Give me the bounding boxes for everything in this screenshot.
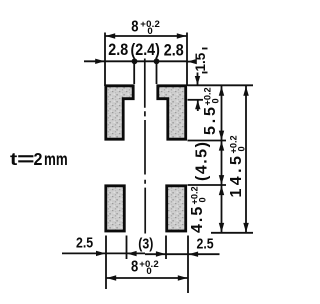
- dim 1.5 lower outside arrow: [197, 100, 199, 111]
- svg-text:0: 0: [146, 266, 151, 277]
- node dot right 2.8 boundary: [154, 58, 160, 64]
- svg-text:t: t: [10, 150, 18, 169]
- ext line pad-top right side: [188, 84, 254, 86]
- text (2.4): [131, 41, 160, 59]
- svg-text:(4.5): (4.5): [194, 141, 211, 181]
- extension from dot right down to pad: [156, 61, 158, 84]
- svg-text:0: 0: [237, 146, 247, 151]
- svg-text:5.5: 5.5: [202, 104, 219, 135]
- arrow at 126.5 pointing left ((3) inside): [127, 251, 137, 256]
- text (3): [138, 235, 153, 251]
- extension line right x=187: [186, 33, 188, 87]
- text 8 top: [131, 18, 138, 35]
- arrow down bottom (14.5): [243, 223, 249, 233]
- svg-text:0: 0: [211, 98, 221, 103]
- svg-text:(3): (3): [138, 235, 153, 251]
- tick below 1.5: [202, 72, 208, 74]
- svg-text:2.8: 2.8: [164, 42, 184, 60]
- pad top-left: [106, 86, 133, 139]
- svg-text:2.5: 2.5: [76, 234, 94, 250]
- svg-text:14.5: 14.5: [228, 153, 245, 198]
- text t=2mm: [10, 150, 18, 169]
- arrow down at 233 (4.5): [219, 223, 224, 233]
- arrow at 166 pointing right ((3) inside): [156, 251, 166, 256]
- svg-text:0: 0: [198, 197, 208, 202]
- svg-text:mm: mm: [44, 150, 68, 169]
- arrow left (8 top): [106, 33, 116, 38]
- arrow up at 140.5 ((4.5)): [219, 141, 224, 151]
- text 14.5 +0.2/0 rotated: [228, 135, 247, 197]
- dim line 5.5/(4.5)/4.5 vertical: [221, 86, 223, 233]
- svg-text:2: 2: [34, 149, 43, 169]
- text 2.8 right: [164, 42, 184, 60]
- svg-text:(2.4): (2.4): [131, 41, 160, 59]
- arrow at 106 pointing right (2.5 left outside): [96, 251, 106, 256]
- arrow right (8 top): [177, 33, 187, 38]
- text 4.5 +0.2/0 rotated: [189, 186, 208, 233]
- bottom ext line x=126.5: [126, 236, 128, 260]
- bottom ext line x=188: [187, 236, 189, 294]
- svg-text:4.5: 4.5: [189, 205, 206, 233]
- dim line 8 top: [105, 35, 187, 37]
- arrow up top (5.5): [219, 86, 224, 96]
- svg-text:1.5: 1.5: [193, 52, 208, 71]
- ext line bottom pads bottom: [211, 232, 253, 234]
- text (4.5) rotated: [194, 141, 211, 181]
- extension from dot left down to pad: [133, 61, 135, 84]
- centerline vertical: [144, 59, 146, 234]
- tick above 1.5: [202, 48, 208, 50]
- text 2.5 left: [76, 234, 94, 250]
- text 2.5 right: [197, 235, 215, 251]
- text 2.8 left: [108, 41, 128, 59]
- dim line 2.8/(2.4)/2.8: [84, 60, 187, 62]
- ext line ledge: [188, 99, 204, 101]
- arrow down at 185 ((4.5)): [219, 175, 224, 185]
- text 5.5 +0.2/0 rotated: [202, 87, 221, 135]
- text 1.5 rotated: [193, 52, 208, 71]
- pad bottom-right: [167, 186, 186, 231]
- arrow at 188 pointing left (2.5 right outside): [189, 252, 199, 257]
- svg-text:0: 0: [147, 26, 152, 37]
- pad bottom-left: [106, 186, 125, 231]
- arrow at x=105 pointing right (outside): [95, 59, 104, 64]
- bottom ext line x=106: [105, 236, 107, 290]
- ext line bottom-pad-top: [188, 184, 227, 186]
- arrow at x=187 pointing left (outside): [187, 59, 196, 64]
- ext line pad-bottom: [188, 140, 227, 142]
- svg-text:2.8: 2.8: [108, 41, 128, 59]
- arrow down at 140.5 (5.5): [219, 131, 224, 141]
- dim 1.5 upper outside arrow: [197, 73, 199, 86]
- extension line left x=105: [104, 33, 106, 87]
- arrow up at 185 (4.5): [219, 186, 224, 196]
- pad top-right: [158, 86, 186, 139]
- arrow left (8 bottom): [107, 275, 117, 280]
- svg-text:2.5: 2.5: [197, 235, 215, 251]
- dim line 8 bottom: [106, 277, 188, 279]
- text 8 bottom: [131, 258, 138, 275]
- dim line 14.5 vertical: [245, 86, 247, 233]
- arrow up top (14.5): [243, 86, 249, 96]
- arrow right (8 bottom): [178, 275, 188, 280]
- svg-text:8: 8: [131, 18, 138, 35]
- svg-text:8: 8: [131, 258, 138, 275]
- bottom ext line x=166: [165, 236, 167, 260]
- node dot left 2.8 boundary: [132, 58, 138, 64]
- dim line 2.5/(3)/2.5: [62, 252, 145, 254]
